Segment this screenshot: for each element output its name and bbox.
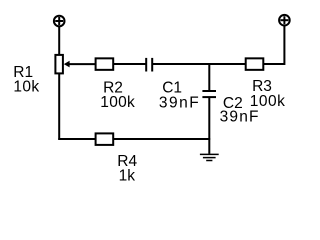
svg-text:100k: 100k — [100, 94, 135, 111]
ground symbol — [200, 154, 219, 160]
wire C1 to R3 — [152, 63, 246, 65]
potentiometer R1 body — [55, 55, 63, 74]
terminal T1 (+) left — [54, 16, 65, 27]
potentiometer R1 wiper arrow — [64, 61, 96, 68]
capacitor C1 plates — [146, 58, 152, 72]
wire C2 to ground — [208, 98, 210, 154]
wire R1 bottom to corner — [58, 73, 60, 139]
svg-text:39nF: 39nF — [220, 109, 260, 126]
wire R3 to corner up to T2 — [263, 26, 284, 64]
svg-text:100k: 100k — [250, 93, 286, 110]
wire T1 to R1 top — [58, 26, 60, 55]
wire bottom rail — [58, 138, 95, 140]
wire R2 to C1 — [113, 63, 146, 65]
capacitor C2 plates — [202, 91, 216, 97]
svg-text:1k: 1k — [119, 168, 136, 185]
svg-text:39nF: 39nF — [159, 94, 200, 111]
terminal T2 (+) right — [279, 15, 290, 26]
svg-text:10k: 10k — [13, 78, 39, 95]
resistor R3 body — [246, 58, 264, 70]
node junction wire down to C2 — [208, 64, 210, 91]
wire R4 to ground rail — [113, 138, 210, 140]
resistor R2 body — [96, 58, 114, 70]
resistor R4 body — [96, 133, 114, 145]
